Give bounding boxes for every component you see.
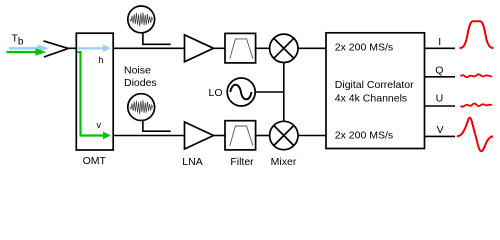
- waveform I (flat-top pulse, red): [460, 21, 494, 48]
- digital correlator box: [326, 33, 425, 149]
- svg-text:4x 4k Channels: 4x 4k Channels: [335, 93, 407, 105]
- noise diode 2 (bottom): [128, 94, 171, 132]
- svg-text:Digital Correlator: Digital Correlator: [335, 79, 414, 91]
- wire LNA2 to Filter2: [214, 135, 226, 137]
- amplifier LNA1: [185, 35, 214, 62]
- noise diode 1 (top): [128, 6, 171, 44]
- OMT box: [76, 33, 113, 150]
- svg-text:Noise: Noise: [124, 65, 151, 77]
- wire: green v-pol input arrow: [7, 48, 47, 55]
- svg-text:Mixer: Mixer: [271, 156, 297, 168]
- svg-text:Filter: Filter: [230, 156, 254, 168]
- wire LO distribution vertical: [283, 62, 285, 121]
- svg-text:2x 200 MS/s: 2x 200 MS/s: [335, 130, 393, 142]
- svg-text:v: v: [97, 120, 102, 130]
- svg-text:LO: LO: [208, 87, 222, 99]
- waveform U (noise trace, red): [461, 104, 493, 107]
- wire output U: [425, 105, 456, 107]
- filter F1 (top): [225, 33, 256, 63]
- wire: OMT v-out to LNA2: [113, 135, 184, 137]
- wire: blue h arrow inside OMT: [77, 45, 111, 65]
- wire: blue h-pol input arrow: [9, 45, 49, 52]
- wire Filter1 to Mixer1: [256, 47, 270, 49]
- waveform V (S-curve, red): [457, 118, 493, 152]
- wire: OMT h-out to LNA1: [113, 47, 184, 49]
- wire LNA1 to Filter1: [214, 47, 226, 49]
- oscillator LO: [227, 78, 255, 106]
- feed horn: [44, 41, 77, 57]
- svg-text:OMT: OMT: [83, 155, 107, 167]
- wire Mixer1 to correlator: [298, 47, 326, 49]
- svg-text:b: b: [18, 36, 24, 47]
- wire output V: [425, 135, 456, 137]
- waveform Q (noise trace, red): [461, 74, 493, 77]
- filter F2 (bottom): [225, 121, 256, 150]
- svg-text:V: V: [437, 124, 444, 136]
- svg-text:Q: Q: [435, 65, 443, 77]
- amplifier LNA2: [185, 122, 214, 149]
- wire Mixer2 to correlator: [298, 135, 326, 137]
- svg-text:LNA: LNA: [182, 156, 202, 168]
- wire horn to OMT: [68, 47, 76, 49]
- svg-text:U: U: [436, 93, 444, 105]
- mixer M2 (bottom): [270, 121, 298, 149]
- wire output Q: [425, 76, 456, 78]
- wire LO to mixers: [255, 91, 284, 93]
- wire output I: [425, 47, 456, 49]
- svg-text:h: h: [99, 55, 104, 65]
- wire: green v path inside OMT: [77, 52, 111, 139]
- svg-text:2x 200 MS/s: 2x 200 MS/s: [335, 42, 393, 54]
- svg-text:I: I: [438, 36, 441, 48]
- svg-text:Diodes: Diodes: [124, 77, 157, 89]
- wire Filter2 to Mixer2: [256, 135, 270, 137]
- mixer M1 (top): [270, 34, 298, 62]
